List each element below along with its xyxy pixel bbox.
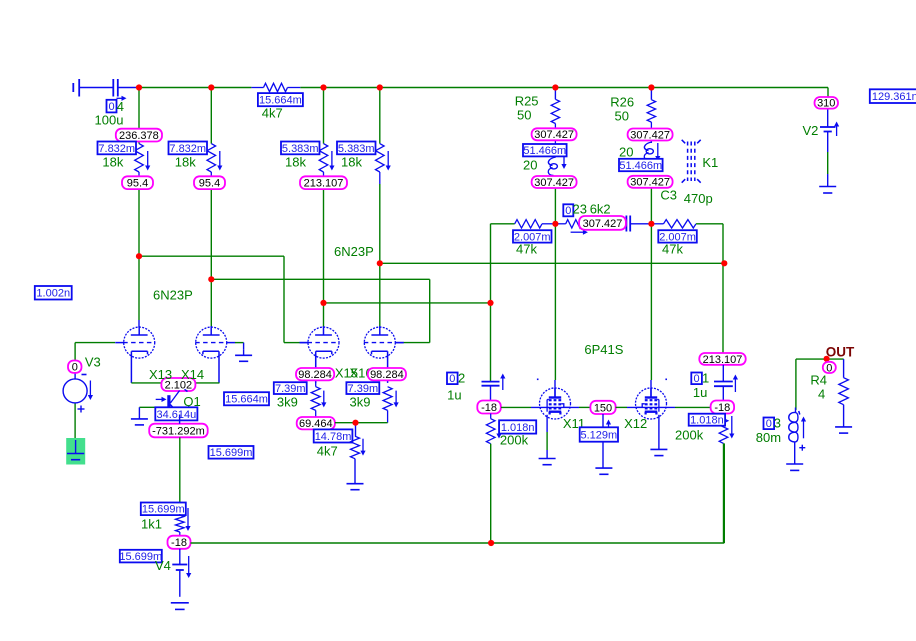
X13 label — [149, 367, 172, 382]
junction dot 14 — [648, 221, 654, 227]
wire col1 — [138, 88, 140, 328]
C4 value 100u — [95, 113, 124, 128]
svg-text:0: 0 — [449, 373, 455, 385]
node box 310 — [815, 97, 839, 110]
resistor 18k a — [135, 144, 144, 177]
junction dot 2 — [208, 84, 214, 90]
svg-text:0: 0 — [826, 362, 832, 374]
pentode X11 — [540, 388, 571, 419]
node box 69.464 — [297, 417, 335, 430]
svg-text:3k9: 3k9 — [277, 395, 298, 410]
svg-text:7.832m: 7.832m — [98, 143, 135, 155]
svg-text:3k9: 3k9 — [350, 395, 371, 410]
svg-text:51.466m: 51.466m — [523, 145, 566, 157]
svg-text:213.107: 213.107 — [703, 354, 743, 366]
svg-text:98.284: 98.284 — [370, 369, 404, 381]
C1 box 0 — [691, 373, 702, 386]
C1 designator — [702, 371, 709, 386]
value box 5.383m a — [281, 142, 320, 155]
200k b label — [675, 428, 704, 443]
svg-text:129.361n: 129.361n — [872, 91, 916, 103]
value box 15.664m b — [224, 392, 269, 405]
node box 236.378 — [116, 129, 162, 142]
svg-text:80m: 80m — [756, 430, 781, 445]
resistor 4k7 top — [251, 83, 300, 91]
capacitor C23 — [626, 216, 651, 232]
node box 307.427 b — [532, 176, 577, 189]
resistor R4 — [839, 378, 849, 427]
svg-text:6k2: 6k2 — [590, 202, 611, 217]
18k c current arrow — [329, 151, 334, 171]
wire col2 — [210, 88, 212, 328]
ground X14 — [235, 349, 252, 361]
wire -18 rail — [191, 443, 725, 543]
junction dot 6 — [648, 84, 654, 90]
47k b label — [662, 242, 683, 257]
C4 current box 0 — [107, 100, 117, 113]
triode X14 — [195, 326, 235, 383]
junction dot 10 — [487, 300, 493, 306]
node box 0 V3 — [68, 361, 82, 374]
svg-text:47k: 47k — [662, 242, 683, 257]
node box 213.107 — [300, 176, 347, 189]
value box 51.466m b — [619, 159, 663, 172]
svg-text:1u: 1u — [447, 388, 461, 403]
6k2 designator — [573, 202, 587, 217]
node box 307.427 e — [579, 216, 626, 230]
junction dot 15 — [352, 420, 358, 426]
svg-text:V4: V4 — [155, 558, 171, 573]
18k d current arrow — [386, 151, 391, 171]
X16 label — [350, 366, 373, 381]
node box 0 OUT — [823, 362, 836, 375]
6k2 value — [590, 202, 611, 217]
resistor R26 — [647, 100, 655, 122]
value box 51.466m a — [523, 144, 567, 157]
svg-text:51.466m: 51.466m — [619, 160, 662, 172]
V3 label — [85, 355, 101, 370]
node box 213.107 b — [699, 353, 745, 366]
ground L3 — [786, 464, 803, 470]
svg-text:1: 1 — [702, 371, 709, 386]
svg-text:470p: 470p — [684, 191, 713, 206]
svg-text:1u: 1u — [693, 385, 707, 400]
wire cathode junction — [335, 423, 388, 437]
svg-text:150: 150 — [594, 402, 612, 414]
resistor 18k c — [319, 144, 328, 177]
wire coupling left — [491, 224, 515, 382]
resistor 6k2 — [555, 220, 590, 228]
V2 current arrow — [834, 122, 839, 137]
svg-text:C3: C3 — [660, 188, 677, 203]
winding a label 20 — [523, 158, 537, 173]
node box 95.4 b — [194, 176, 225, 189]
svg-text:V3: V3 — [85, 355, 101, 370]
C1 arrow — [733, 375, 738, 393]
svg-text:18k: 18k — [102, 155, 123, 170]
node box 150 — [590, 401, 615, 415]
svg-text:5.383m: 5.383m — [338, 143, 375, 155]
X15 label — [335, 366, 358, 381]
junction dot 8 — [208, 276, 214, 282]
L3 arrow — [801, 417, 806, 439]
node box -18 a — [168, 536, 191, 549]
pentode X12 — [636, 388, 667, 419]
svg-text:0: 0 — [766, 418, 772, 430]
svg-text:V2: V2 — [803, 123, 819, 138]
470p label — [684, 191, 713, 206]
svg-text:69.464: 69.464 — [299, 418, 333, 430]
triode X15 — [300, 326, 340, 383]
value box 1.002n — [35, 286, 72, 300]
value box 7.832m a — [98, 142, 137, 155]
R4 label — [810, 373, 827, 402]
svg-text:307.427: 307.427 — [534, 177, 574, 189]
C3 label — [660, 188, 677, 203]
node box -18 c — [711, 401, 735, 414]
L3 plus — [799, 445, 805, 451]
svg-text:2: 2 — [458, 371, 465, 386]
4k7 b arrow — [360, 439, 365, 456]
svg-text:15.699m: 15.699m — [142, 504, 185, 516]
K1 label — [702, 155, 718, 170]
V2 label — [803, 123, 819, 138]
value box 0 6k2 — [563, 204, 573, 217]
svg-text:5.129m: 5.129m — [580, 429, 617, 441]
wire X16 grid bus — [211, 279, 429, 342]
svg-text:98.284: 98.284 — [298, 369, 332, 381]
Q1 label — [183, 394, 200, 409]
svg-text:15.699m: 15.699m — [210, 447, 253, 459]
svg-text:18k: 18k — [175, 155, 196, 170]
L3 value — [756, 430, 781, 445]
svg-text:20: 20 — [523, 158, 537, 173]
value box 7.832m b — [169, 142, 208, 155]
wire cathode bus — [131, 382, 219, 384]
wire X11 plate — [554, 224, 556, 398]
3k9 b arrow — [394, 391, 399, 408]
C2 arrow — [500, 374, 505, 391]
C1 value — [693, 385, 707, 400]
svg-text:307.427: 307.427 — [630, 129, 670, 141]
resistor 18k d — [376, 144, 385, 172]
V3 minus — [82, 374, 87, 376]
C2 designator — [458, 371, 465, 386]
ground V3 — [67, 440, 84, 460]
svg-text:200k: 200k — [500, 433, 529, 448]
battery V4 — [172, 565, 187, 571]
svg-text:200k: 200k — [675, 428, 704, 443]
svg-text:X14: X14 — [181, 367, 204, 382]
V3 plus — [78, 406, 85, 413]
svg-text:0: 0 — [565, 205, 571, 217]
18k a current arrow — [145, 151, 150, 171]
wire X12 plate — [650, 224, 652, 398]
3k9 a label — [277, 395, 298, 410]
5.129m arrow — [606, 420, 611, 428]
18k a label — [102, 155, 123, 170]
ground X11 — [539, 459, 556, 465]
svg-text:307.427: 307.427 — [534, 129, 574, 141]
value box 5.383m b — [337, 142, 376, 155]
source V3 — [63, 379, 87, 403]
svg-text:18k: 18k — [285, 155, 306, 170]
18k b current arrow — [217, 151, 222, 171]
junction dot 9 — [320, 300, 326, 306]
ground R4 — [835, 427, 852, 433]
winding b label 20 — [619, 145, 633, 160]
wire X15 grid bus — [139, 256, 308, 342]
transformer K1 core — [682, 140, 701, 183]
OUT label — [826, 344, 855, 359]
coil a arrow — [561, 157, 566, 169]
wire R25 col — [554, 88, 556, 224]
ground mid — [595, 468, 612, 474]
18k c label — [285, 155, 306, 170]
6P41S label — [584, 342, 623, 357]
wire — [79, 87, 113, 89]
wire X14 grid — [235, 343, 244, 350]
3k9 b label — [350, 395, 371, 410]
value box 15.664m (4k7) — [258, 93, 303, 106]
svg-text:1.002n: 1.002n — [36, 288, 70, 300]
wire 150 stem — [602, 414, 604, 468]
svg-text:-18: -18 — [714, 402, 730, 414]
resistor 18k b — [207, 144, 216, 177]
junction dot 11 — [377, 260, 383, 266]
svg-text:0: 0 — [694, 373, 700, 385]
svg-text:6N23P: 6N23P — [334, 244, 374, 259]
junction dot 13 — [552, 221, 558, 227]
value box 1.018n b — [689, 414, 725, 427]
svg-text:6N23P: 6N23P — [153, 288, 193, 303]
svg-text:18k: 18k — [341, 155, 362, 170]
capacitor C4 — [113, 79, 139, 97]
svg-text:50: 50 — [615, 108, 629, 123]
wire V4 — [179, 549, 181, 597]
resistor 1k1 — [176, 514, 185, 536]
svg-text:307.427: 307.427 — [583, 218, 623, 230]
X11 pin dot — [537, 379, 539, 381]
svg-text:95.4: 95.4 — [199, 178, 220, 190]
svg-text:4k7: 4k7 — [317, 444, 338, 459]
ground Q1 — [131, 407, 148, 425]
value box 1.018n a — [499, 420, 536, 434]
wire coupling right — [722, 224, 724, 353]
1k1 label — [141, 517, 162, 532]
triode X13 — [115, 326, 155, 383]
capacitor C1 — [714, 365, 733, 401]
svg-text:5.383m: 5.383m — [282, 143, 319, 155]
4k7 b label — [317, 444, 338, 459]
value box 15.699m b — [141, 503, 186, 516]
value box 2.007m a — [513, 230, 552, 243]
svg-text:0: 0 — [108, 101, 114, 113]
svg-text:X12: X12 — [624, 416, 647, 431]
junction dot 16 — [488, 540, 494, 546]
wire OUT — [796, 359, 844, 410]
svg-text:7.39m: 7.39m — [348, 383, 379, 395]
node box 98.284 a — [296, 368, 334, 381]
capacitor C2 — [482, 382, 500, 401]
wire X11 cathode — [546, 415, 548, 459]
C4 designator — [117, 99, 124, 114]
1k1 arrow — [185, 508, 190, 531]
inductor L3 — [789, 408, 798, 465]
X11 label — [563, 416, 585, 431]
wire X11 grid — [501, 406, 590, 408]
coil b arrow — [655, 143, 660, 161]
svg-text:15.664m: 15.664m — [225, 394, 268, 406]
node box 307.427 a — [532, 128, 577, 141]
svg-text:X13: X13 — [149, 367, 172, 382]
V3 current arrow — [88, 381, 93, 401]
node box 95.4 a — [122, 176, 153, 189]
X12 label — [624, 416, 647, 431]
resistor 47k b — [651, 220, 723, 228]
V4 arrow — [186, 556, 191, 578]
junction dot 12 — [721, 260, 727, 266]
ground X12 — [650, 449, 667, 455]
C2 value — [447, 388, 461, 403]
node box -731.292m — [149, 424, 208, 438]
4k7 label — [262, 106, 283, 121]
R25 label — [515, 94, 539, 123]
svg-text:R26: R26 — [610, 94, 634, 109]
wire col3 — [323, 88, 325, 328]
svg-text:213.107: 213.107 — [304, 178, 344, 190]
value box 129.361n — [870, 89, 916, 103]
svg-text:47k: 47k — [516, 242, 537, 257]
value box 7.39m b — [346, 382, 379, 395]
svg-text:4k7: 4k7 — [262, 106, 283, 121]
wire X12 cathode — [658, 415, 660, 450]
wire V3 — [75, 343, 115, 440]
svg-text:100u: 100u — [95, 113, 124, 128]
6N23P label a — [153, 288, 193, 303]
3k9 a arrow — [321, 391, 326, 408]
battery V1 (input source plates) — [73, 79, 79, 97]
svg-text:23: 23 — [573, 202, 587, 217]
svg-text:20: 20 — [619, 145, 633, 160]
200k a label — [500, 433, 529, 448]
svg-text:95.4: 95.4 — [127, 178, 148, 190]
R26 label — [610, 94, 634, 123]
wire R26 col — [650, 88, 652, 224]
junction dot 1 — [136, 84, 142, 90]
resistor 200k a — [486, 414, 495, 544]
value box 34.614u — [155, 407, 197, 420]
47k a label — [516, 242, 537, 257]
L3 box 0 — [764, 418, 775, 431]
winding coil b — [644, 142, 653, 161]
resistor 3k9 a — [311, 387, 320, 418]
value box 7.39m a — [274, 382, 307, 395]
resistor 3k9 b — [383, 387, 392, 423]
18k b label — [175, 155, 196, 170]
node box 307.427 c — [628, 129, 673, 142]
svg-text:4: 4 — [818, 386, 825, 401]
wire Q1 base — [139, 406, 167, 408]
resistor 200k b — [719, 414, 728, 544]
svg-text:0: 0 — [72, 362, 78, 374]
svg-text:1.018n: 1.018n — [690, 415, 724, 427]
X14 label — [181, 367, 204, 382]
C2 box 0 — [447, 373, 458, 386]
Q1 base arrow — [156, 397, 167, 402]
V4 label — [155, 558, 171, 573]
6k2 arrow — [571, 230, 588, 235]
value box 15.699m c — [119, 550, 162, 563]
L3 minus tick — [799, 411, 800, 415]
wire X16 plate bus — [380, 262, 725, 264]
svg-text:R4: R4 — [810, 373, 827, 388]
resistor R25 — [551, 99, 559, 123]
value box 5.129m — [580, 427, 618, 441]
svg-text:6P41S: 6P41S — [584, 342, 623, 357]
X12 pin dot — [665, 379, 667, 381]
200k a arrow — [496, 421, 501, 439]
18k d label — [341, 155, 362, 170]
svg-text:14.78m: 14.78m — [315, 431, 352, 443]
selection highlight — [66, 438, 85, 465]
svg-text:34.614u: 34.614u — [156, 409, 196, 421]
wire X12 grid — [616, 406, 711, 408]
junction dot 4 — [377, 84, 383, 90]
node box 307.427 d — [628, 176, 673, 189]
svg-text:-731.292m: -731.292m — [152, 425, 205, 437]
svg-text:1k1: 1k1 — [141, 517, 162, 532]
wire X15 plate bus — [324, 302, 491, 304]
wire V2 — [827, 88, 829, 187]
svg-text:50: 50 — [517, 108, 531, 123]
wire Q1 emitter — [179, 415, 181, 504]
6N23P label b — [334, 244, 374, 259]
200k b arrow — [729, 416, 734, 439]
node OUT dot — [824, 356, 830, 362]
svg-text:7.39m: 7.39m — [275, 383, 306, 395]
winding coil a — [548, 157, 557, 176]
triode X16 — [364, 326, 404, 383]
svg-text:3: 3 — [774, 416, 781, 431]
svg-text:K1: K1 — [702, 155, 718, 170]
junction dot 5 — [552, 84, 558, 90]
svg-text:OUT: OUT — [826, 344, 855, 359]
svg-text:R25: R25 — [515, 94, 539, 109]
node box 98.284 b — [368, 368, 406, 381]
junction dot 7 — [136, 253, 142, 259]
svg-text:7.832m: 7.832m — [169, 143, 206, 155]
transistor Q1 — [169, 389, 188, 414]
node box -18 b — [477, 401, 501, 414]
wire X15 cathode — [315, 355, 317, 387]
wire col4 — [379, 88, 381, 328]
resistor 4k7 b — [351, 436, 360, 484]
value box 2.007m b — [658, 230, 697, 243]
wire top rail — [139, 87, 828, 89]
ground V2 — [819, 187, 836, 194]
ground 4k7 — [347, 484, 364, 490]
ground V4 — [171, 603, 189, 610]
svg-text:-18: -18 — [171, 537, 187, 549]
C4 current arrow — [117, 96, 127, 101]
svg-text:310: 310 — [817, 98, 835, 110]
svg-text:-18: -18 — [481, 402, 497, 414]
resistor 47k a — [515, 220, 556, 228]
junction dot 3 — [320, 84, 326, 90]
battery V2 — [820, 127, 835, 132]
L3 designator — [774, 416, 781, 431]
